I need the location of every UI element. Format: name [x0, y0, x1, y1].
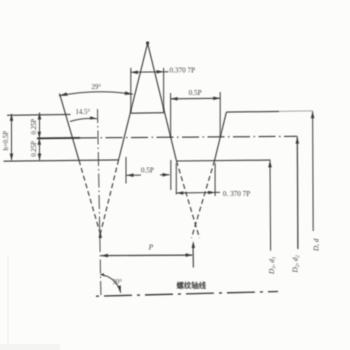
- angle 14.5 arc: [70, 118, 97, 121]
- center tooth left flank dashed extension: [100, 160, 118, 234]
- svg-text:h=0.5P: h=0.5P: [3, 131, 10, 151]
- left tooth right flank dashed extension: [79, 160, 100, 234]
- diameter line D,d: [312, 111, 315, 231]
- dimension 0.370 7P top: extension lines: [130, 68, 132, 113]
- svg-text:30°: 30°: [113, 279, 123, 286]
- page margin faint line: [8, 255, 9, 350]
- svg-text:0. 370 7P: 0. 370 7P: [223, 190, 250, 198]
- dimension h=0.5P: dimension line: [11, 114, 13, 161]
- right apex extension line: [192, 244, 194, 268]
- svg-text:P: P: [148, 243, 154, 252]
- svg-text:14.5°: 14.5°: [76, 109, 91, 116]
- svg-text:0.25P: 0.25P: [31, 141, 38, 157]
- dimension 0.5P middle: extension lines: [125, 157, 127, 184]
- right groove apex blob: [192, 241, 195, 248]
- apex dot center tooth: [146, 41, 149, 44]
- dimension 0.25P stack: dimension line: [39, 113, 41, 161]
- dimension 0.370 7P top: dimension line with tail: [131, 71, 169, 74]
- svg-text:0.5P: 0.5P: [189, 89, 202, 97]
- diameter line D1,d1: [269, 161, 272, 251]
- root line left long segment: [4, 160, 119, 161]
- dimension 0.370 7P bottom: dimension line with tail: [176, 191, 220, 194]
- right groove right flank solid: [215, 112, 227, 161]
- left groove centre line dash-dot: [98, 109, 101, 296]
- crest flat of center tooth: [131, 112, 164, 115]
- pitch line dash-dot: [80, 136, 297, 138]
- crest line left segment: [7, 113, 71, 116]
- svg-text:螺纹轴线: 螺纹轴线: [177, 281, 207, 290]
- dimension P: dimension line: [101, 254, 193, 257]
- svg-text:0.25P: 0.25P: [31, 119, 38, 135]
- dimension 0.5P middle: dimension line: [127, 174, 142, 176]
- center tooth left flank solid: [119, 43, 148, 160]
- center tooth right flank solid: [148, 43, 177, 161]
- root flat right groove and extension: [177, 159, 271, 162]
- diameter line D2,d2: [296, 137, 299, 249]
- svg-text:29°: 29°: [92, 84, 102, 91]
- center tooth right flank dashed extension: [177, 161, 200, 238]
- angle 30 arc: [100, 275, 121, 293]
- svg-text:D, d: D, d: [313, 238, 321, 252]
- right groove right flank dashed extension: [192, 161, 215, 238]
- dimension 0.5P right: dimension line: [171, 97, 221, 100]
- crest extension thin to D,d arrow: [279, 110, 313, 113]
- svg-text:0.5P: 0.5P: [141, 166, 154, 174]
- dimension 0.5P right: extension lines: [170, 93, 172, 137]
- angle 29 arc: [59, 92, 133, 96]
- svg-text:0.370 7P: 0.370 7P: [170, 67, 196, 75]
- left tooth right flank solid: [60, 94, 80, 161]
- thread axis dash-dot line: [96, 292, 278, 297]
- left groove apex blob: [99, 231, 102, 238]
- crest line right tooth: [226, 110, 279, 113]
- dimension 0.370 7P bottom: extension lines: [175, 163, 177, 195]
- pitch line thick segment: [37, 137, 80, 140]
